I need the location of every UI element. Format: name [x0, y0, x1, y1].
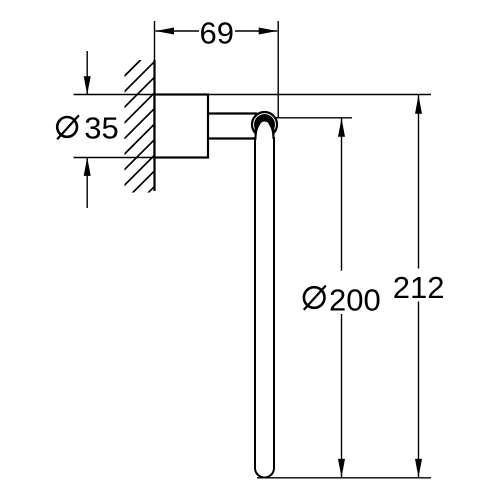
Ø35 label: [57, 115, 79, 139]
flange (wall plate): [155, 95, 209, 158]
212 arrow top: [415, 95, 422, 114]
ring tube right line: [273, 137, 275, 468]
Ø200 dimension line lower segment: [341, 314, 343, 478]
Ø200 top extension line: [272, 117, 352, 119]
Ø35 bottom extension line: [74, 157, 155, 159]
212 arrow bottom: [415, 459, 422, 478]
Ø200 dimension line upper segment: [341, 118, 343, 271]
svg-text:35: 35: [84, 111, 118, 146]
bottom extension line: [257, 477, 431, 479]
post bottom line: [207, 137, 257, 139]
dimension 69 extension line right: [277, 21, 279, 118]
Ø35 dimension line upper segment: [86, 51, 88, 95]
Ø200 arrow bottom: [338, 459, 345, 478]
212 dimension line lower segment: [418, 302, 420, 478]
top extension line (212 / Ø35 upper): [74, 94, 432, 96]
wall hatching: [110, 0, 210, 231]
post top line: [207, 112, 257, 114]
Ø35 dimension line lower segment: [86, 158, 88, 209]
dimension 69 line left segment: [156, 30, 200, 32]
ring tube bottom cap: [255, 468, 274, 478]
ring tube top hook (black silhouette): [254, 114, 275, 135]
wall line: [153, 60, 155, 191]
Ø35 arrow top: [84, 76, 91, 95]
svg-text:212: 212: [393, 270, 445, 305]
dimension 69 arrow right: [259, 28, 278, 35]
212 dimension line upper segment: [418, 95, 420, 269]
Ø200 arrow top: [338, 118, 345, 137]
ring tube left line: [254, 137, 256, 468]
dimension 69 extension line left / wall edge upper part: [154, 21, 156, 60]
Ø35 arrow bottom: [84, 157, 91, 176]
svg-text:69: 69: [200, 16, 234, 51]
ring tube interior (white): [257, 121, 273, 467]
pivot circle: [252, 112, 277, 137]
dimension 69 arrow left: [156, 28, 175, 35]
dimension 69 line right segment: [235, 30, 277, 32]
Ø200 label: [304, 286, 326, 310]
svg-text:200: 200: [329, 282, 381, 317]
